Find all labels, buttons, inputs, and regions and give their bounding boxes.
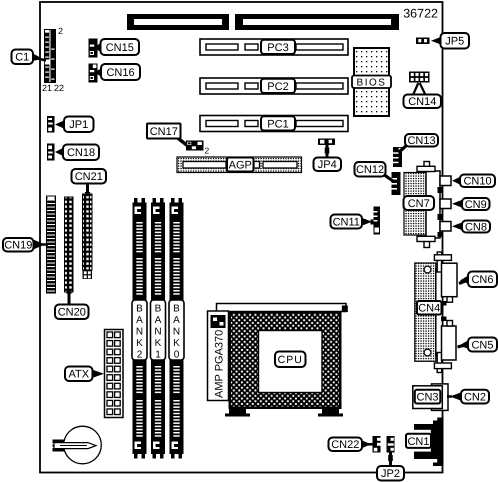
svg-text:2: 2 [137, 350, 143, 361]
svg-text:B: B [136, 304, 143, 315]
connector CN10 port [440, 176, 451, 186]
svg-text:0: 0 [174, 350, 180, 361]
svg-text:CN11: CN11 [333, 217, 360, 229]
svg-text:A: A [155, 315, 162, 326]
label JP2 [377, 466, 404, 481]
connector CN7 block [404, 171, 443, 238]
label PC3 [261, 40, 295, 54]
label CN21 leader [85, 183, 91, 197]
label JP4 [314, 158, 342, 172]
svg-text:21: 21 [42, 83, 52, 93]
connector CN13 [393, 147, 402, 167]
svg-text:CN6: CN6 [471, 274, 493, 286]
slot BANK1 [151, 198, 165, 459]
label JP1 leader [55, 120, 65, 129]
connector CN3 [413, 384, 448, 411]
connector CN17 [186, 141, 204, 151]
label CN19 [3, 238, 34, 252]
label CN19 leader [32, 239, 48, 250]
svg-text:PC3: PC3 [267, 42, 288, 54]
connector CN8 port [440, 222, 451, 232]
label C1 leader [32, 53, 46, 61]
label CN16 [101, 64, 140, 80]
svg-text:N: N [136, 327, 143, 338]
slot PC3 [200, 39, 348, 55]
svg-text:CN3: CN3 [417, 392, 439, 404]
label PC1 [261, 116, 295, 130]
svg-text:N: N [154, 327, 161, 338]
connector ATX [105, 330, 124, 418]
connector CN1 [411, 418, 444, 467]
label CN8 [462, 221, 490, 234]
top slot bar left [127, 14, 229, 30]
label CN22 [329, 438, 363, 452]
svg-text:CN16: CN16 [106, 67, 134, 79]
svg-text:36722: 36722 [403, 7, 438, 21]
top slot bar right [235, 14, 399, 30]
connector CN5 port [442, 321, 457, 361]
label CN2 leader [447, 392, 462, 401]
board outline [40, 2, 443, 473]
connector CN18 [47, 144, 55, 161]
svg-text:K: K [155, 338, 162, 349]
BIOS chip [354, 48, 389, 116]
label ATX leader [92, 370, 104, 379]
label CN20 leader [66, 288, 72, 305]
label BANK0 [169, 300, 184, 361]
svg-text:CN18: CN18 [67, 147, 95, 159]
svg-text:A: A [173, 315, 180, 326]
label CN13 leader [399, 145, 407, 152]
label CN17 leader [175, 136, 188, 146]
svg-text:CN22: CN22 [331, 439, 359, 451]
connector CN11 [371, 207, 381, 235]
label JP2 leader [388, 453, 393, 468]
jumper JP2 [387, 436, 395, 453]
svg-text:2: 2 [205, 146, 210, 156]
svg-text:K: K [173, 338, 180, 349]
label CN2 [461, 390, 489, 404]
connector CN9 port [440, 199, 451, 209]
svg-text:CN19: CN19 [4, 240, 32, 252]
svg-text:CN4: CN4 [418, 303, 440, 315]
svg-text:BIOS: BIOS [357, 77, 387, 88]
battery [53, 426, 102, 464]
label AGP [227, 158, 254, 172]
label JP1 [64, 117, 94, 133]
label JP5 [441, 33, 470, 49]
label CN6 [468, 272, 497, 288]
label CN4 [417, 301, 442, 315]
connector CN15 [89, 39, 98, 58]
label JP5 leader [431, 37, 442, 46]
connector C1 [44, 29, 56, 83]
jumper JP4 [318, 139, 335, 146]
svg-text:CN12: CN12 [356, 164, 384, 176]
CPU lever bar [217, 304, 348, 313]
connector CN14 [409, 72, 430, 83]
svg-text:CN2: CN2 [464, 392, 486, 404]
label BANK1 [151, 300, 166, 361]
svg-text:AGP: AGP [229, 160, 252, 172]
svg-text:CN1: CN1 [407, 436, 429, 448]
svg-text:PC1: PC1 [267, 118, 288, 130]
svg-text:CN20: CN20 [58, 307, 86, 319]
label CN12 [355, 162, 386, 177]
CPU inner square [259, 331, 323, 393]
label PC2 [261, 79, 295, 93]
svg-text:ATX: ATX [68, 369, 89, 381]
svg-text:CPU: CPU [278, 354, 303, 366]
label CN20 [55, 305, 89, 320]
connector CN12 [392, 172, 401, 195]
label CN15 leader [93, 43, 101, 52]
label CPU [275, 352, 306, 368]
svg-text:A: A [136, 315, 143, 326]
connector CN21 [83, 194, 93, 279]
svg-text:22: 22 [54, 83, 64, 93]
connector CN4 block [415, 263, 447, 361]
label CN6 leader [459, 275, 469, 284]
connector CN22 [373, 436, 381, 453]
jumper JP5 [416, 38, 430, 45]
label CN18 [63, 145, 99, 161]
CPU socket body [229, 311, 342, 409]
svg-text:AMP PGA370: AMP PGA370 [214, 330, 226, 398]
CN4 screw holes [424, 266, 431, 356]
label BANK2 [132, 300, 147, 361]
svg-text:PC2: PC2 [267, 81, 288, 93]
label CN9 leader [452, 200, 463, 209]
CN4 bottom bracket [434, 353, 451, 373]
svg-text:CN14: CN14 [408, 96, 436, 108]
svg-text:CN15: CN15 [106, 42, 134, 54]
slot PC2 [200, 78, 348, 94]
label CN5 leader [458, 340, 470, 349]
svg-text:JP1: JP1 [69, 119, 88, 131]
svg-text:CN17: CN17 [150, 126, 178, 138]
label CN5 [468, 338, 497, 352]
label JP4 leader [325, 145, 330, 158]
svg-text:CN9: CN9 [465, 199, 487, 211]
svg-text:C1: C1 [15, 52, 29, 64]
slot BANK0 [170, 198, 184, 459]
svg-text:2: 2 [58, 26, 63, 36]
pin labels 21 22 (C1) [42, 83, 64, 93]
label CN14 [404, 95, 442, 109]
label CN11 leader [361, 218, 372, 227]
svg-text:CN10: CN10 [463, 176, 491, 188]
label CN1 [406, 434, 431, 448]
label CN12 leader [383, 174, 393, 181]
svg-text:B: B [173, 304, 180, 315]
label CN15 [101, 39, 140, 55]
svg-text:N: N [173, 327, 180, 338]
CPU feet [225, 409, 343, 417]
label CN10 [460, 175, 495, 188]
label CN16 leader [94, 68, 102, 77]
svg-text:CN7: CN7 [408, 198, 430, 210]
svg-text:CN8: CN8 [465, 222, 487, 234]
svg-text:CN21: CN21 [75, 171, 103, 183]
svg-text:1: 1 [155, 350, 161, 361]
label CN7 [404, 196, 435, 210]
slot AGP [177, 157, 302, 173]
svg-text:B: B [155, 304, 162, 315]
CN7 top bracket [417, 162, 435, 172]
CN4 top bracket [434, 252, 451, 272]
label CN3 [415, 390, 441, 404]
label C1 [12, 50, 34, 65]
slot PC1 [200, 116, 348, 132]
label CN8 leader [452, 222, 463, 231]
label CN9 [462, 198, 490, 211]
slot BANK2 [133, 198, 147, 459]
connector CN16 [89, 64, 98, 83]
svg-text:CN13: CN13 [407, 135, 435, 147]
label CN17 [147, 124, 181, 139]
svg-text:JP4: JP4 [318, 159, 337, 171]
jumper JP1 [47, 116, 55, 133]
label CN11 [331, 215, 363, 229]
label CN10 leader [452, 177, 461, 186]
connector CN19 [47, 196, 56, 293]
label CN14 leader [413, 83, 426, 95]
label CN13 [405, 134, 438, 147]
connector CN6 port [442, 263, 458, 302]
svg-text:JP5: JP5 [445, 36, 464, 48]
label CN21 [72, 169, 107, 184]
label CN22 leader [361, 440, 374, 449]
label ATX [65, 367, 93, 382]
label BIOS [352, 76, 391, 89]
label CN18 leader [55, 148, 64, 157]
svg-text:JP2: JP2 [381, 468, 400, 480]
svg-text:CN5: CN5 [471, 340, 493, 352]
svg-text:K: K [136, 338, 143, 349]
AMP PGA370 strip [208, 311, 229, 401]
connector CN20 [65, 197, 74, 292]
CN7 bottom bracket [417, 236, 435, 247]
